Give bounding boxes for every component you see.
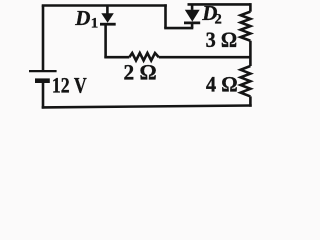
- resistor R4 4-ohm zigzag: [241, 66, 251, 96]
- battery B1 12V long plate: [29, 70, 57, 72]
- wire top right: [188, 3, 251, 6]
- svg-text:2: 2: [215, 11, 222, 27]
- wire step horizontal to D2: [164, 27, 193, 30]
- svg-text:2 Ω: 2 Ω: [124, 60, 157, 85]
- svg-text:D: D: [74, 6, 90, 30]
- wire D2 lower stem: [191, 23, 194, 29]
- svg-text:12 V: 12 V: [52, 72, 87, 97]
- wire middle right (2-ohm to right rail): [159, 56, 252, 59]
- diode D2 triangle: [185, 10, 200, 22]
- diode D1 cathode bar: [100, 23, 116, 26]
- wire top left: [42, 4, 167, 7]
- wire step down vertical: [164, 4, 167, 28]
- wire right middle vertical: [249, 41, 252, 66]
- wire left lower (battery bottom lead): [42, 81, 45, 109]
- diode D2 cathode bar: [184, 21, 200, 24]
- wire D2 upper stem: [191, 4, 194, 9]
- wire D1 anode stem: [106, 6, 109, 15]
- svg-text:1: 1: [91, 16, 99, 32]
- wire right lower vertical: [249, 96, 252, 106]
- resistor R3 3-ohm zigzag: [241, 12, 251, 41]
- wire left upper (battery top lead): [42, 6, 45, 72]
- wire middle left (from D1 to 2-ohm): [104, 56, 129, 59]
- resistor R2 2-ohm zigzag: [129, 53, 159, 61]
- wire D1 cathode stem down to 2-ohm wire: [104, 24, 107, 58]
- battery B1 12V short plate: [35, 78, 50, 83]
- wire bottom: [42, 106, 252, 108]
- svg-text:4 Ω: 4 Ω: [206, 72, 238, 97]
- svg-text:3 Ω: 3 Ω: [206, 27, 238, 52]
- wire right upper vertical: [249, 3, 252, 12]
- circuit schematic: 12V battery, diodes D1 D2, resistors 2/3/4 ohm: [0, 0, 278, 116]
- diode D1 triangle: [101, 13, 114, 22]
